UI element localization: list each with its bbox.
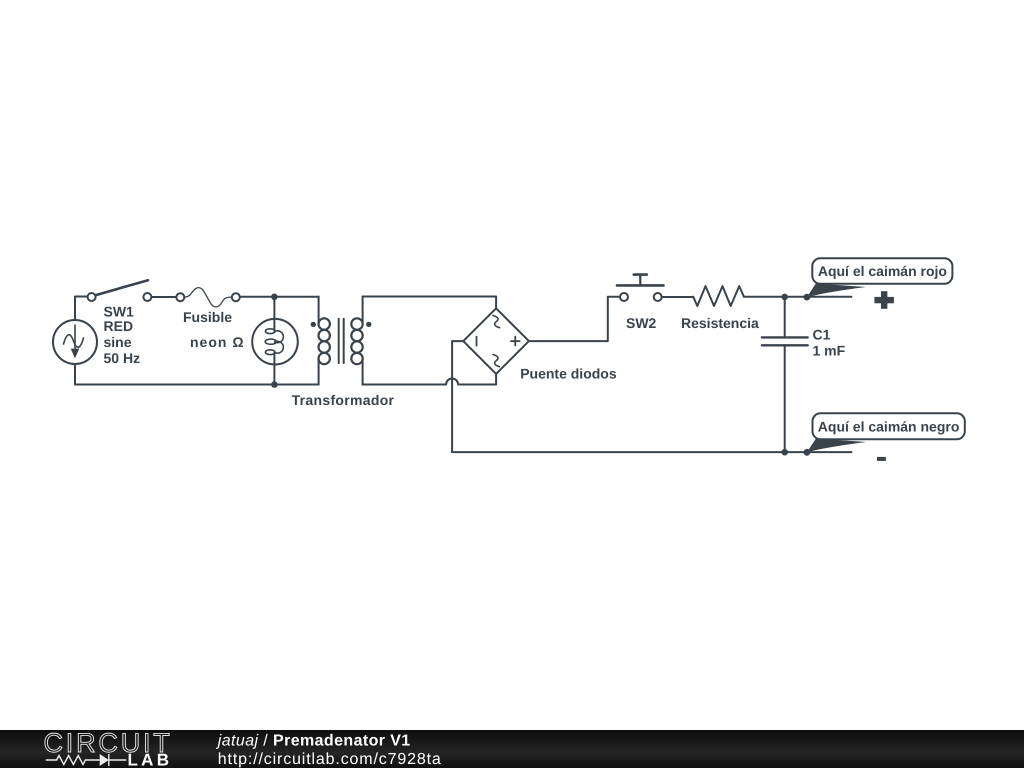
labels xyxy=(104,304,846,409)
- output terminal symbol xyxy=(877,457,886,461)
wire secondary bottom to bridge, with hop xyxy=(363,374,497,385)
switch SW1 xyxy=(88,280,152,301)
bottom output rail xyxy=(452,451,851,453)
svg-text:LAB: LAB xyxy=(128,751,173,768)
capacitor C1 xyxy=(762,297,808,452)
node caiman rojo xyxy=(804,294,811,301)
svg-text:Fusible: Fusible xyxy=(183,309,232,325)
wire bridge right vertex to SW2 xyxy=(529,297,620,341)
annotation callout "Aqui el caiman negro" xyxy=(807,413,965,452)
bridge rectifier "Puente diodos" xyxy=(463,308,529,374)
svg-text:C1: C1 xyxy=(813,326,831,342)
neon lamp "neon" xyxy=(252,297,298,385)
wire left rail top xyxy=(75,297,88,321)
voltage source RED (sine 50 Hz) xyxy=(53,320,97,364)
svg-text:Puente diodos: Puente diodos xyxy=(520,366,617,382)
wire secondary top to bridge xyxy=(363,297,497,309)
svg-text:Resistencia: Resistencia xyxy=(681,315,759,331)
footer bar xyxy=(0,730,1024,768)
transformer "Transformador" xyxy=(311,297,372,385)
svg-text:1 mF: 1 mF xyxy=(813,343,846,359)
svg-text:50 Hz: 50 Hz xyxy=(104,350,141,366)
annotation callout "Aqui el caiman rojo" xyxy=(807,258,953,297)
svg-text:http://circuitlab.com/c7928ta: http://circuitlab.com/c7928ta xyxy=(218,751,442,768)
svg-text:SW2: SW2 xyxy=(626,315,657,331)
wire bridge left vertex down to bottom rail xyxy=(452,341,463,452)
resistor "Resistencia" xyxy=(693,286,744,306)
wire SW2 to resistor xyxy=(662,296,694,298)
svg-text:SW1: SW1 xyxy=(104,304,135,320)
svg-text:Aquí el caimán rojo: Aquí el caimán rojo xyxy=(818,263,947,279)
wire between SW1 and fuse xyxy=(151,296,176,298)
node top of lamp xyxy=(271,294,278,301)
logo doodle resistor+diode xyxy=(46,754,127,766)
svg-text:Aquí el caimán negro: Aquí el caimán negro xyxy=(818,419,960,435)
svg-text:jatuaj / Premadenator V1: jatuaj / Premadenator V1 xyxy=(216,733,411,750)
svg-text:sine: sine xyxy=(104,334,132,350)
node capacitor top xyxy=(781,294,788,301)
wire fuse to transformer xyxy=(240,296,319,298)
wire left rail bottom xyxy=(75,364,319,385)
svg-text:RED: RED xyxy=(104,318,134,334)
pushbutton SW2 xyxy=(617,275,664,301)
svg-text:Transformador: Transformador xyxy=(292,392,395,408)
wire resistor to + terminal xyxy=(744,296,852,298)
node capacitor bottom xyxy=(781,449,788,456)
+ output terminal symbol xyxy=(874,291,894,309)
node caiman negro xyxy=(804,449,811,456)
node bottom of lamp xyxy=(271,381,278,388)
svg-text:neon Ω: neon Ω xyxy=(190,334,245,350)
fuse "Fusible" xyxy=(176,288,240,307)
